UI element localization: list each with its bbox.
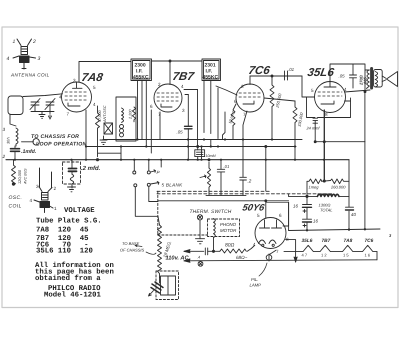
ground at trimmers xyxy=(39,112,45,119)
svg-text:LOOP OPERATION: LOOP OPERATION xyxy=(36,142,87,148)
wire 7A8 cathode down xyxy=(85,110,87,160)
wire IF1 secondary leads xyxy=(137,81,139,140)
svg-text:6: 6 xyxy=(150,104,153,109)
svg-text:OSC.: OSC. xyxy=(9,195,23,201)
IF transformer can Z301 xyxy=(202,59,221,81)
dashed chassis line 1 xyxy=(157,190,271,192)
svg-text:3: 3 xyxy=(241,84,244,89)
svg-text:7A8 120 45: 7A8 120 45 xyxy=(36,227,89,235)
svg-text:PHONO: PHONO xyxy=(220,222,237,227)
svg-text:50Y6: 50Y6 xyxy=(242,203,267,213)
svg-text:2: 2 xyxy=(32,39,36,45)
svg-text:Tube Plate S.G.: Tube Plate S.G. xyxy=(36,217,102,226)
svg-text:4: 4 xyxy=(181,84,184,89)
polarized plug strokes xyxy=(151,282,163,293)
svg-text:4: 4 xyxy=(30,198,33,203)
wire 80ohm to pin4 xyxy=(247,246,254,252)
wire 35L6 pin4 to output transformer xyxy=(345,90,371,92)
svg-text:35L6: 35L6 xyxy=(306,67,335,79)
resistor 250000 xyxy=(270,76,274,140)
capacitor .2mfd dashed box xyxy=(63,162,81,184)
tube V5 50Y6 xyxy=(255,218,286,249)
socket circle 5 blank xyxy=(147,183,150,186)
35L6 grid return box xyxy=(307,97,315,118)
output transformer secondary xyxy=(374,70,383,88)
line cord dashed box xyxy=(156,271,179,300)
ground osc section xyxy=(100,136,107,145)
svg-text:MOTOR: MOTOR xyxy=(220,228,237,233)
AC line bottom y260 xyxy=(184,260,377,261)
svg-text:VOLTAGE: VOLTAGE xyxy=(64,207,95,215)
svg-text:120,000: 120,000 xyxy=(17,169,22,184)
resistor 330000 xyxy=(293,101,297,160)
svg-text:7C6: 7C6 xyxy=(365,238,374,244)
line switch symbol xyxy=(198,261,203,266)
resistor 10 meg xyxy=(231,104,236,140)
resistor 47000 xyxy=(96,106,100,157)
osc coil pin labels xyxy=(30,184,58,211)
resistor 260000 xyxy=(331,179,350,184)
dashed enclosure left xyxy=(157,191,159,235)
svg-text:7A8: 7A8 xyxy=(80,72,104,84)
tube V4 35L6 xyxy=(315,82,346,113)
line cord reel xyxy=(161,276,176,295)
wire cathode bus y202 xyxy=(266,201,289,203)
wire IF1 to 7B7 bus xyxy=(152,60,203,62)
svg-text:5: 5 xyxy=(257,213,260,218)
cathode box right side xyxy=(345,100,351,102)
svg-text:3: 3 xyxy=(73,78,76,83)
tube V2 7B7 xyxy=(154,84,182,112)
svg-text:Model 46-1201: Model 46-1201 xyxy=(44,291,102,300)
svg-text:16: 16 xyxy=(313,219,318,224)
svg-text:2: 2 xyxy=(54,186,57,191)
phono choke xyxy=(214,219,216,238)
svg-text:7: 7 xyxy=(67,112,70,117)
oscillator coil T3 xyxy=(34,168,53,213)
wire 35L6 cathode long drop xyxy=(323,110,325,160)
svg-text:7: 7 xyxy=(276,249,279,254)
svg-text:455KC: 455KC xyxy=(203,75,219,81)
wire AVC vertical x265 xyxy=(265,147,267,192)
filter choke 1300 ohm xyxy=(317,194,339,196)
wire B+ line to 50Y6 xyxy=(158,200,289,202)
wire therm to ground xyxy=(199,220,201,239)
svg-text:.2 mfd.: .2 mfd. xyxy=(81,165,101,172)
svg-text:1: 1 xyxy=(54,206,57,211)
ground therm xyxy=(196,239,205,244)
capacitor .4 line xyxy=(204,248,206,255)
wire pot top from bus xyxy=(208,159,210,161)
electrolytic 16mfd A xyxy=(306,196,308,204)
wire bus drop at x148 P xyxy=(148,160,150,171)
main bus line y160 xyxy=(6,159,349,161)
wire 7C6 plate up xyxy=(249,76,251,85)
svg-text:30Λ: 30Λ xyxy=(7,137,11,144)
wire right drop x288 xyxy=(288,202,290,230)
svg-text:110v. AC.: 110v. AC. xyxy=(166,256,191,262)
wire 7A8 plate to IF1 xyxy=(79,62,131,83)
svg-text:.4: .4 xyxy=(197,256,200,260)
svg-text:24 mmf: 24 mmf xyxy=(306,126,321,131)
svg-text:2: 2 xyxy=(158,82,161,87)
capacitor .05 at 7B7 plate xyxy=(185,94,188,96)
wire loop top to trimmers xyxy=(23,94,63,97)
grid wire 7C6 xyxy=(216,86,237,95)
svg-text:THERM. SWITCH: THERM. SWITCH xyxy=(190,209,232,215)
loop antenna xyxy=(8,96,23,115)
svg-text:OF CHASSIS: OF CHASSIS xyxy=(120,248,144,253)
svg-text:80Ω: 80Ω xyxy=(225,243,235,249)
bus line y140 xyxy=(103,139,302,141)
svg-text:ANT.OSC: ANT.OSC xyxy=(103,105,107,123)
oscillator padder coil xyxy=(16,128,18,146)
svg-text:3: 3 xyxy=(182,108,185,113)
wire bus drop at x134 xyxy=(133,160,135,171)
50Y6 pin numbers xyxy=(253,213,289,254)
svg-text:6: 6 xyxy=(234,99,237,104)
svg-text:4 7: 4 7 xyxy=(302,253,308,258)
svg-text:.01: .01 xyxy=(288,67,295,72)
wire 7B7 cathode down xyxy=(150,110,152,153)
svg-text:obtained from a: obtained from a xyxy=(35,274,101,283)
wire trimmer commons xyxy=(31,111,54,113)
svg-text:16: 16 xyxy=(293,204,298,209)
resistor 80 ohm xyxy=(220,249,246,253)
svg-text:4: 4 xyxy=(59,95,62,100)
wire cathode to speaker return xyxy=(315,141,365,143)
wire loop bottom down xyxy=(10,115,16,127)
svg-text:5: 5 xyxy=(311,88,314,93)
wire 50Y6 cathode right xyxy=(283,202,289,226)
chassis clip symbol xyxy=(22,139,40,145)
wire x149 to phono xyxy=(149,186,158,201)
svg-text:.05: .05 xyxy=(177,130,184,135)
svg-text:P: P xyxy=(157,170,161,175)
osc coil winding left xyxy=(122,108,124,122)
svg-text:35L6 110 120: 35L6 110 120 xyxy=(36,248,93,256)
junction dots bus xyxy=(14,138,325,160)
wire 7B7 pin4 right xyxy=(184,89,198,91)
svg-text:3: 3 xyxy=(36,184,39,189)
resistor 2200 vertical xyxy=(132,107,135,122)
35L6 pin numbers xyxy=(311,87,347,117)
capacitor .01 coupling to 35L6 xyxy=(276,75,284,77)
antenna coil T1 xyxy=(13,39,36,69)
capacitor 24 mmf xyxy=(313,117,318,119)
svg-text:PIL.: PIL. xyxy=(251,277,258,282)
svg-text:4: 4 xyxy=(7,56,10,62)
oscillator section box xyxy=(116,97,136,141)
stub at x161 xyxy=(160,160,162,167)
svg-text:5 BLANK: 5 BLANK xyxy=(162,183,184,188)
trimmer capacitor C1A xyxy=(31,101,39,103)
svg-text:40: 40 xyxy=(351,212,356,217)
heater chain xyxy=(284,245,377,251)
heater string labels xyxy=(302,233,393,244)
svg-text:3: 3 xyxy=(3,127,6,132)
trimmer capacitor C1B xyxy=(46,101,54,103)
svg-text:7: 7 xyxy=(158,112,161,117)
wire 7B7 plate up xyxy=(169,61,171,85)
long vertical right x350 xyxy=(350,98,352,117)
svg-text:ANTENNA COIL: ANTENNA COIL xyxy=(10,73,50,78)
svg-text:260,000: 260,000 xyxy=(330,185,346,190)
wire avc drops xyxy=(120,147,122,160)
wire 7C6 plate right xyxy=(264,98,295,101)
capacitor 10mfd AVC xyxy=(197,147,199,150)
7C6 pin numbers xyxy=(234,84,246,117)
resistor 1 meg xyxy=(307,179,322,184)
svg-text:1 2: 1 2 xyxy=(321,253,327,258)
resistor 120000 xyxy=(12,160,16,186)
padder capacitor box xyxy=(104,123,113,134)
long vertical right x365 xyxy=(364,92,366,228)
svg-text:COIL: COIL xyxy=(9,204,22,210)
output transformer T2 primary xyxy=(367,70,369,86)
therm switch symbol xyxy=(197,215,202,220)
7B7 pin numbers xyxy=(150,82,185,117)
B minus bus y230 xyxy=(289,229,380,231)
svg-text:5: 5 xyxy=(93,85,96,90)
svg-text:1 6: 1 6 xyxy=(365,253,371,258)
svg-text:TOTAL: TOTAL xyxy=(320,208,333,213)
svg-text:3: 3 xyxy=(38,56,41,62)
electrolytic 40mfd xyxy=(346,206,354,208)
svg-text:7B7: 7B7 xyxy=(171,71,195,83)
phono motor dashed box xyxy=(208,219,240,237)
svg-text:8: 8 xyxy=(325,112,328,117)
resistor 18 meg dropping xyxy=(158,225,162,278)
speaker SP xyxy=(382,76,386,78)
electrolytic 16mfd B xyxy=(303,218,312,220)
svg-text:10mfd: 10mfd xyxy=(206,154,217,158)
heater pin numbers xyxy=(302,253,371,258)
svg-text:.1mfd.: .1mfd. xyxy=(21,149,36,155)
svg-text:7A8: 7A8 xyxy=(344,238,353,244)
capacitor .2 xyxy=(243,111,247,177)
svg-text:4: 4 xyxy=(344,87,347,92)
7A8 pin numbers xyxy=(59,78,96,117)
capacitor .1mfd xyxy=(11,148,20,150)
wire pin8 drop xyxy=(286,240,296,262)
svg-text:2,200: 2,200 xyxy=(129,109,133,120)
wire 50Y6 plate drop xyxy=(265,201,267,218)
dashed chassis line 2 xyxy=(157,193,332,195)
wire 18meg bottom xyxy=(159,277,161,283)
socket circle blank xyxy=(134,184,137,187)
wire bus to 35L6 grid xyxy=(250,76,315,97)
IF transformer can Z300 xyxy=(131,59,152,81)
capacitor .01 at pot xyxy=(220,160,222,169)
svg-text:1meg: 1meg xyxy=(309,185,320,190)
wire x158 down xyxy=(158,216,160,225)
svg-text:6: 6 xyxy=(279,213,282,218)
filter line y196 xyxy=(289,195,318,197)
svg-text:1: 1 xyxy=(13,39,16,45)
svg-text:4: 4 xyxy=(93,102,96,107)
capacitor .05 tone xyxy=(352,64,354,75)
osc winding circles xyxy=(120,125,124,129)
ground below dashed box xyxy=(68,187,76,192)
svg-text:AVC BUS: AVC BUS xyxy=(24,168,28,185)
svg-text:330,000: 330,000 xyxy=(297,111,305,127)
svg-text:455KC: 455KC xyxy=(133,75,149,81)
svg-text:1 5: 1 5 xyxy=(343,253,349,258)
svg-text:47,000: 47,000 xyxy=(98,109,102,122)
svg-text:35L6: 35L6 xyxy=(302,238,313,244)
volume control pot xyxy=(207,168,210,192)
label VOLTAGE xyxy=(35,207,114,300)
wire IF2 secondary leads with hooks xyxy=(204,81,218,147)
svg-text:2: 2 xyxy=(2,154,6,159)
svg-text:.2: .2 xyxy=(248,179,252,184)
wire 35L6 plate top loop xyxy=(330,64,365,92)
svg-text:TO BASE: TO BASE xyxy=(122,241,140,246)
AC line top y251 xyxy=(184,250,204,252)
wire x135 down to y216 xyxy=(135,187,158,217)
svg-text:7B7: 7B7 xyxy=(322,238,331,244)
wire audio common y195 xyxy=(206,194,246,196)
bus line y146 xyxy=(86,146,296,148)
pilot lamp xyxy=(266,255,272,261)
tube V1 7A8 xyxy=(62,82,92,112)
svg-text:7C6: 7C6 xyxy=(247,65,271,77)
wire left filter x307 xyxy=(306,181,308,196)
output transformer core xyxy=(370,69,373,89)
tube V3 7C6 xyxy=(236,84,264,112)
svg-text:3: 3 xyxy=(389,233,392,238)
svg-text:.01: .01 xyxy=(224,164,230,169)
wire x324 into resistor row xyxy=(322,180,331,183)
svg-text:LAMP: LAMP xyxy=(250,283,262,288)
svg-text:.05: .05 xyxy=(339,74,346,79)
svg-text:68Ω~: 68Ω~ xyxy=(236,255,248,260)
heater return right xyxy=(376,252,378,260)
svg-text:250,000: 250,000 xyxy=(274,92,282,109)
